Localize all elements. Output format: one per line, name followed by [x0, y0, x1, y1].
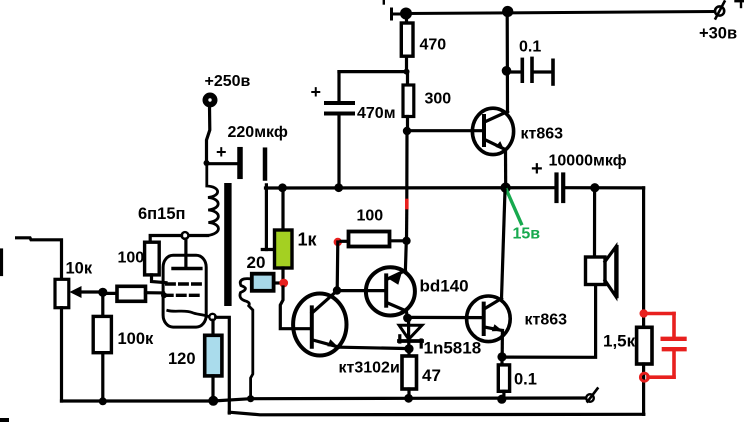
svg-text:1n5818: 1n5818 [424, 339, 482, 358]
capacitor 470m [337, 72, 340, 102]
wire upper kt863 collector up to rail [506, 12, 509, 112]
terminal +250v [205, 95, 214, 104]
svg-text:+: + [311, 82, 322, 102]
resistor grid stopper horizontal [103, 292, 117, 295]
svg-text:47: 47 [422, 366, 441, 385]
tube plate bar [184, 239, 187, 267]
svg-text:кт3102и: кт3102и [339, 360, 400, 377]
wire speaker top lead [593, 188, 596, 257]
tube grid g2 dashed [167, 282, 204, 285]
SECTION:LEFT [2, 95, 276, 413]
wire 20 cap left wiggle down to rail [240, 279, 253, 399]
wire lower kt863 emitter down [501, 331, 504, 357]
wire bd140 collector to diode junction [406, 311, 407, 318]
wire anode terminal to coil [189, 234, 208, 237]
node 120 bottom on rail [208, 396, 218, 406]
wire input line [17, 238, 62, 279]
mark top-right corner tick [740, 0, 742, 7]
resistor 0.1 lower [500, 357, 503, 365]
resistor 1.5k [637, 327, 652, 364]
svg-text:100: 100 [357, 208, 384, 225]
node collector/top-rail junction [502, 6, 513, 17]
resistor 100 screen [145, 242, 160, 275]
wire ground rail 1 [62, 398, 586, 401]
wire red dot down to kt3102 base [280, 287, 310, 329]
wire +250v lead down [207, 106, 210, 164]
resistor 470 [405, 16, 408, 23]
node 1k top junction [278, 183, 287, 192]
wire kt3102 emitter line to diode bottom [341, 347, 409, 348]
svg-text:+250в: +250в [205, 73, 251, 90]
tube cathode curve [168, 311, 210, 317]
svg-text:100: 100 [118, 250, 145, 267]
wire red measurement tick on vertical [405, 201, 409, 208]
svg-text:кт863: кт863 [525, 312, 568, 329]
capacitor 20 (blue) [252, 274, 274, 291]
svg-text:470: 470 [420, 36, 447, 53]
capacitor 0.1 top [507, 70, 521, 73]
capacitor red across 1.5k [645, 314, 685, 378]
terminal rail1 right end [586, 394, 594, 402]
node 220mkf tee [204, 160, 210, 166]
wire upper kt863 emitter down [504, 150, 507, 188]
node diode bottom junction [404, 344, 413, 353]
svg-text:100к: 100к [118, 330, 155, 348]
diode 1n5818 [407, 318, 410, 341]
node red dot 100 left [334, 238, 342, 246]
wire base line kt3102-collector to bd140 [337, 289, 385, 292]
potentiometer 10k body [55, 279, 69, 307]
terminal +30v [715, 6, 724, 15]
resistor 47 [407, 349, 410, 356]
node red dot 1.5k top [640, 309, 648, 317]
node wiper junction [98, 288, 107, 297]
svg-text:20: 20 [247, 253, 266, 272]
svg-text:300: 300 [425, 91, 452, 108]
resistor 100 feedback horizontal [341, 240, 349, 243]
svg-text:1к: 1к [298, 230, 318, 250]
resistor 300 [406, 72, 409, 85]
wire junction to lower kt863 base [408, 316, 484, 319]
node 0.1 cap tap on collector line [502, 66, 512, 76]
node 10000mkf right junction / speaker tap [590, 183, 599, 192]
terminal cathode circle [209, 314, 215, 320]
node red dot 1k/20 junction [279, 279, 288, 288]
node junction 300 bottom [403, 127, 411, 135]
wire vertical 407 down through rail [405, 131, 408, 201]
node 0.1 bottom on rail [497, 395, 506, 404]
transistor Q2 kt3102i [293, 294, 346, 356]
wire anode circle left to 100 resistor top [150, 236, 181, 243]
transistor Q1 kt863 upper [472, 108, 513, 154]
potentiometer 10k wiper arrow [75, 290, 103, 293]
wire top rail left stub end tick [390, 9, 393, 19]
wire emitter junction right to speaker bottom [502, 285, 596, 358]
wire pot bottom to ground rail [60, 308, 63, 401]
node bd140 collector junction [403, 314, 412, 323]
node lower emitter junction [497, 352, 506, 361]
wire input left edge stub [0, 250, 3, 275]
wire mid rail y188 left part [266, 186, 555, 190]
wire red dot to collector junction [336, 242, 340, 291]
node 470m bottom junction [334, 183, 343, 192]
svg-text:кт863: кт863 [521, 126, 564, 143]
corner artifact mark [0, 418, 9, 422]
tube 6p15p envelope [163, 255, 206, 327]
transformer core bar [224, 183, 231, 306]
resistor 120 (blue) [205, 335, 222, 376]
resistor 1k (green) [281, 188, 284, 230]
tube grid g1 dashed [165, 294, 202, 297]
node 47 bottom on rail [404, 394, 413, 403]
mark tiny dash above rail [383, 0, 385, 4]
node kt3102 collector junction [333, 286, 341, 294]
svg-text:15в: 15в [513, 226, 541, 243]
node junction 470/300 [404, 69, 410, 75]
node 100 right junction [402, 237, 410, 245]
SECTION:TOP [266, 0, 744, 241]
resistor 100k [101, 292, 104, 316]
capacitor 10000mkf [554, 175, 558, 202]
wire junction to 470m cap top [339, 70, 407, 73]
svg-text:bd140: bd140 [420, 277, 469, 296]
wire 220mkf right plate down to mid rail and 1k side [265, 185, 268, 250]
transistor Q3 bd140 [366, 267, 415, 315]
svg-text:0.1: 0.1 [514, 371, 537, 389]
SECTION:RIGHT [586, 188, 685, 414]
inductor transformer primary coil [207, 164, 219, 236]
svg-text:470м: 470м [357, 105, 396, 122]
wire ground rail 2 [229, 412, 644, 415]
svg-text:10000мкф: 10000мкф [549, 153, 627, 170]
wire cathode to 120 resistor [211, 320, 214, 335]
node top rail left junction [400, 8, 412, 20]
node red ring 1.5k bottom [640, 373, 648, 381]
svg-text:+: + [216, 142, 227, 162]
wire cathode right to second ground rail [216, 317, 230, 413]
svg-text:6п15п: 6п15п [138, 205, 185, 223]
wire lower kt863 collector up to emitter junction [502, 190, 506, 299]
svg-text:+30в: +30в [699, 25, 737, 43]
capacitor 220mkf [207, 162, 238, 165]
svg-text:10к: 10к [66, 260, 93, 278]
terminal tube anode top circle [182, 232, 189, 239]
node 20 wiggle bottom on rail [247, 395, 254, 402]
wire bd140 emitter up to junction [404, 241, 408, 271]
svg-text:120: 120 [168, 350, 196, 368]
wire right rail down to 1.5k [642, 188, 645, 327]
SECTION:MID [0, 188, 644, 422]
svg-text:0.1: 0.1 [519, 39, 541, 56]
SECTION:LABELS [66, 25, 738, 389]
svg-text:1,5к: 1,5к [603, 332, 636, 351]
node emitter junction on mid rail [500, 183, 510, 193]
node 100k bottom on rail [99, 397, 107, 405]
pointer 15v green line [507, 190, 522, 224]
svg-text:+: + [531, 158, 543, 180]
speaker [586, 257, 606, 285]
wire top +30v rail [406, 12, 714, 14]
wire base line to upper kt863 [407, 129, 484, 132]
transistor Q4 kt863 lower [467, 296, 511, 342]
svg-text:220мкф: 220мкф [228, 124, 288, 141]
